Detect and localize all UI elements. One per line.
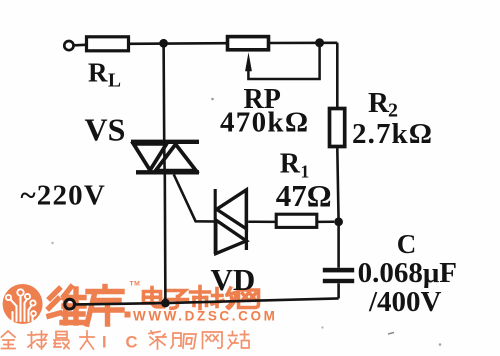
svg-text:R: R (280, 148, 301, 179)
svg-text:R: R (88, 58, 108, 88)
svg-text:2.7kΩ: 2.7kΩ (352, 118, 433, 150)
svg-text:/400V: /400V (368, 286, 442, 318)
svg-text:C: C (397, 229, 417, 259)
svg-text:WWW.DZSC.COM: WWW.DZSC.COM (133, 309, 277, 324)
svg-text:~220V: ~220V (21, 180, 107, 212)
svg-text:C: C (126, 334, 138, 352)
svg-text:470kΩ: 470kΩ (220, 107, 309, 139)
svg-text:I: I (102, 334, 107, 352)
svg-text:0.068μF: 0.068μF (358, 257, 457, 289)
svg-text:VS: VS (85, 112, 126, 148)
svg-text:VD: VD (211, 262, 256, 297)
svg-text:TM: TM (130, 280, 141, 287)
svg-text:47Ω: 47Ω (276, 178, 332, 213)
svg-text:R: R (368, 87, 390, 119)
svg-text:L: L (108, 71, 121, 92)
